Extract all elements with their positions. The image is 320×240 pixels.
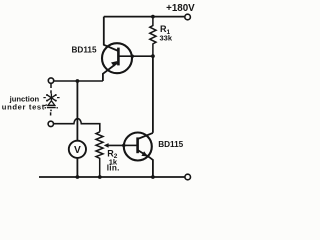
svg-text:lin.: lin. [107,164,120,173]
svg-text:BD115: BD115 [72,46,97,55]
svg-text:+180V: +180V [166,3,195,14]
svg-text:33k: 33k [160,34,173,43]
svg-text:V: V [74,145,81,156]
svg-text:under test: under test [2,102,45,111]
svg-text:BD115: BD115 [158,140,183,149]
